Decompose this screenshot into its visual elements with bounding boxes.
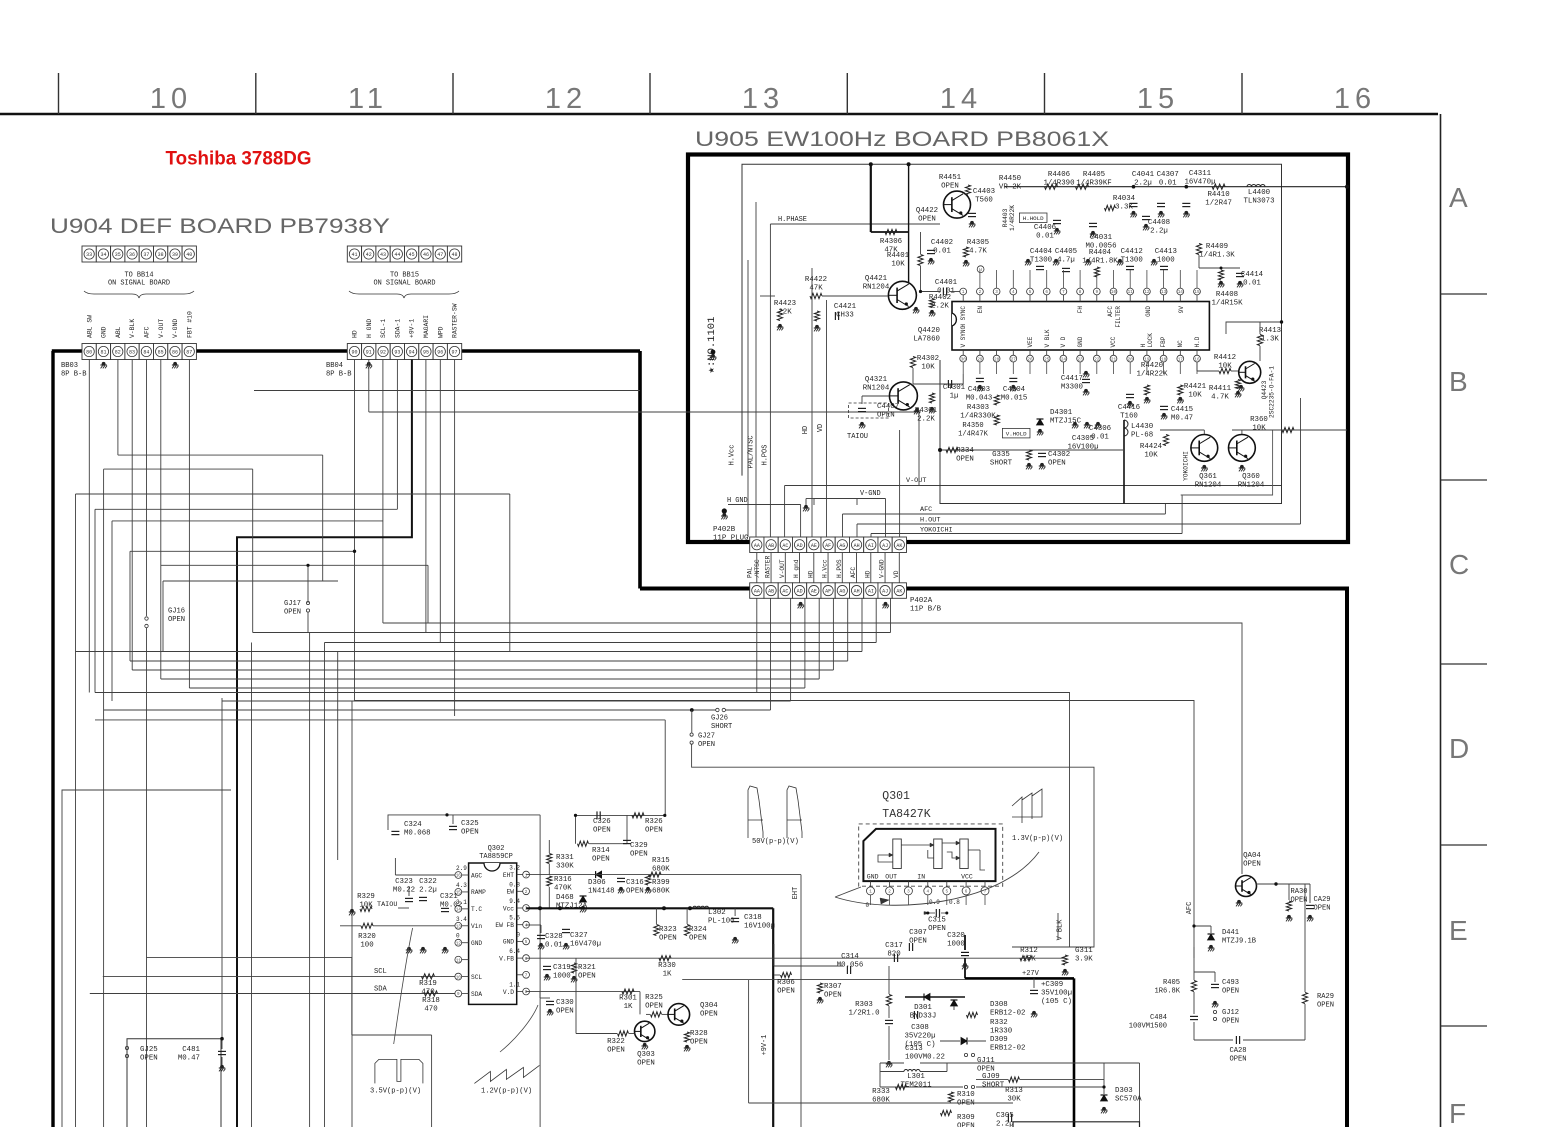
long vertical wire x309.6: [309, 633, 311, 1127]
svg-text:C4401: C4401: [935, 279, 958, 287]
svg-text:14: 14: [1178, 290, 1184, 295]
svg-text:10K: 10K: [1252, 425, 1266, 433]
resistor R4410 1/2R47: [1212, 184, 1225, 189]
wire P402B to P402A pin AA: [756, 553, 758, 583]
svg-text:4.7K: 4.7K: [969, 248, 987, 256]
svg-text:1/4R22K: 1/4R22K: [1009, 205, 1016, 231]
svg-text:91: 91: [366, 350, 372, 356]
svg-text:C4404: C4404: [1030, 248, 1053, 256]
connector P402B AA-AK: [750, 537, 764, 553]
wire to Q303: [576, 1033, 617, 1035]
grounds under P402A: [799, 602, 803, 606]
svg-text:C4041: C4041: [1132, 171, 1155, 179]
svg-text:16V470µ: 16V470µ: [1184, 179, 1215, 187]
svg-text:34: 34: [100, 252, 106, 258]
wires bottom mesh: [748, 980, 750, 1103]
svg-text:AA: AA: [754, 589, 760, 595]
svg-text:9: 9: [457, 992, 460, 997]
svg-text:83: 83: [129, 350, 135, 356]
SCL wire: [103, 975, 455, 977]
svg-text:V-OUT: V-OUT: [158, 319, 165, 338]
svg-text:G311: G311: [1075, 947, 1093, 955]
svg-text:+9V-1: +9V-1: [409, 319, 416, 338]
svg-text:R4408: R4408: [1216, 291, 1238, 299]
svg-text:YOKOICHI: YOKOICHI: [1183, 451, 1190, 481]
svg-text:MTZJ9.1B: MTZJ9.1B: [1222, 937, 1256, 945]
svg-text:OPEN: OPEN: [556, 1008, 574, 1016]
svg-text:M0.068: M0.068: [404, 830, 431, 838]
wire y720 to Q302 top: [95, 719, 665, 721]
left area stair wires: [118, 454, 323, 456]
svg-text:SDA-1: SDA-1: [394, 319, 401, 338]
wire P402B to P402A pin AB: [770, 553, 772, 583]
ground at BB04 pin 91: [367, 362, 371, 366]
svg-text:R4424: R4424: [1140, 443, 1163, 451]
svg-text:OPEN: OPEN: [630, 851, 648, 859]
svg-text:28: 28: [994, 357, 1000, 362]
IC Q302 TA8859CP body: [469, 863, 517, 1004]
pin circle H: [977, 266, 984, 273]
svg-text:6: 6: [965, 890, 968, 895]
svg-text:97: 97: [452, 350, 458, 356]
svg-text:VEE: VEE: [1027, 336, 1034, 347]
svg-text:81: 81: [100, 350, 106, 356]
svg-text:PAL: PAL: [747, 567, 754, 578]
svg-text:11: 11: [456, 958, 462, 963]
svg-text:AI: AI: [868, 543, 874, 549]
svg-text:T160: T160: [1120, 413, 1138, 421]
svg-text:FH: FH: [1077, 306, 1084, 314]
bus wire to P402A pin AG: [132, 669, 833, 671]
svg-text:AB: AB: [768, 543, 774, 549]
svg-text:V-BLK: V-BLK: [129, 319, 136, 338]
svg-text:9.4: 9.4: [509, 898, 520, 905]
wire QA04 to RA30: [1256, 883, 1310, 885]
svg-text:40: 40: [186, 252, 192, 258]
svg-text:680K: 680K: [652, 866, 670, 874]
svg-text:H.D: H.D: [1194, 336, 1201, 347]
svg-text:L4400: L4400: [1248, 189, 1270, 197]
svg-text:ERB12-02: ERB12-02: [990, 1045, 1025, 1053]
svg-text:8P B-B: 8P B-B: [61, 370, 87, 378]
wire from BB03 pin 87: [188, 360, 190, 689]
wire from BB04 pin 92: [382, 360, 384, 624]
svg-text:2.2K: 2.2K: [931, 303, 949, 311]
svg-text:4.7K: 4.7K: [1211, 394, 1229, 402]
svg-text:EW: EW: [507, 889, 515, 896]
svg-text:C4408: C4408: [1148, 219, 1170, 227]
svg-text:C4405: C4405: [1055, 248, 1077, 256]
svg-text:1.3V(p-p)(V): 1.3V(p-p)(V): [1012, 835, 1063, 843]
svg-text:1µ: 1µ: [950, 393, 959, 401]
svg-text:R4450: R4450: [999, 175, 1021, 183]
svg-text:R4306: R4306: [880, 238, 902, 246]
svg-text:13: 13: [1161, 290, 1167, 295]
wire GJ26 line to P402A AB: [692, 709, 716, 711]
svg-text:R316: R316: [554, 876, 572, 884]
svg-text:AF: AF: [825, 589, 831, 595]
svg-text:11: 11: [1128, 290, 1134, 295]
svg-text:HD: HD: [352, 330, 359, 338]
svg-text:R4303: R4303: [967, 404, 989, 412]
svg-text:47: 47: [437, 252, 443, 258]
svg-text:23: 23: [1078, 357, 1084, 362]
svg-text:R322: R322: [607, 1038, 625, 1046]
svg-text:8: 8: [525, 990, 528, 995]
svg-text:RASTER-SW: RASTER-SW: [452, 303, 459, 338]
svg-text:P402B: P402B: [713, 526, 736, 534]
svg-text:1.3K: 1.3K: [1261, 336, 1279, 344]
svg-text:Q4421: Q4421: [865, 275, 888, 283]
resistor R4409 1/4R1.3K: [1196, 244, 1201, 255]
dark feed wires from top: [870, 164, 872, 232]
IC U4420 LA7860 body: [952, 302, 1209, 351]
svg-text:GND: GND: [1145, 306, 1152, 317]
dark +9V-1 wire from BB04 pin 94: [237, 360, 412, 1127]
brace BB14: [84, 291, 194, 298]
svg-text:Q304: Q304: [700, 1002, 718, 1010]
svg-text:OPEN: OPEN: [140, 1055, 158, 1063]
svg-text:R4410: R4410: [1208, 191, 1230, 199]
svg-text:R399: R399: [652, 879, 670, 887]
svg-text:OPEN: OPEN: [1048, 460, 1066, 468]
svg-text:17: 17: [1178, 357, 1184, 362]
svg-text:T560: T560: [975, 197, 993, 205]
svg-text:Vin: Vin: [471, 923, 482, 930]
svg-text:9: 9: [1096, 290, 1099, 295]
transistor QA04 OPEN: [1236, 876, 1257, 897]
svg-text:0.01: 0.01: [1036, 233, 1054, 241]
svg-text:35V100µ: 35V100µ: [1041, 990, 1072, 998]
svg-text:C4406: C4406: [1034, 224, 1056, 232]
svg-text:C324: C324: [404, 821, 422, 829]
svg-text:85: 85: [158, 350, 164, 356]
svg-text:OPEN: OPEN: [168, 616, 185, 624]
svg-text:V-GND: V-GND: [172, 319, 179, 338]
svg-text:6: 6: [525, 957, 528, 962]
svg-text:C318: C318: [744, 914, 762, 922]
svg-text:FILTER: FILTER: [1115, 306, 1122, 328]
svg-text:R314: R314: [592, 847, 610, 855]
svg-text:C484: C484: [1150, 1014, 1167, 1022]
svg-text:Toshiba 3788DG: Toshiba 3788DG: [166, 148, 312, 170]
svg-text:TAIOU: TAIOU: [377, 901, 397, 909]
svg-text:10K: 10K: [1188, 392, 1202, 400]
svg-text:GND: GND: [867, 874, 879, 881]
U905 wires misc: [920, 231, 922, 233]
svg-text:4: 4: [927, 890, 930, 895]
svg-text:0.8: 0.8: [509, 881, 520, 888]
wire from BB04 pin 96: [439, 360, 441, 643]
wire pair lower: [147, 956, 352, 958]
svg-text:ABL: ABL: [115, 326, 122, 338]
svg-text:15: 15: [1194, 290, 1200, 295]
svg-text:D441: D441: [1222, 929, 1239, 937]
svg-text:H.Vcc: H.Vcc: [729, 445, 737, 466]
svg-text:R331: R331: [556, 854, 574, 862]
svg-text:1K: 1K: [663, 971, 672, 979]
svg-text:2: 2: [979, 290, 982, 295]
svg-text:C329: C329: [630, 842, 648, 850]
thick right border of lower board: [1345, 589, 1349, 1127]
svg-text:OPEN: OPEN: [909, 938, 927, 946]
svg-text:AC: AC: [782, 543, 788, 549]
IC top pin row 1-15: [960, 288, 967, 295]
svg-text:R4412: R4412: [1214, 354, 1236, 362]
svg-text:1N4148: 1N4148: [588, 888, 615, 896]
svg-text:12: 12: [1144, 290, 1150, 295]
IC bottom pin row 30-16: [960, 355, 967, 362]
svg-text:Q4422: Q4422: [916, 207, 938, 215]
svg-text:R4302: R4302: [917, 355, 939, 363]
svg-text:1: 1: [525, 873, 528, 878]
svg-text:AG: AG: [839, 589, 845, 595]
capacitor C4407 OPEN dashed: [849, 403, 889, 418]
wire P402B to P402A pin AK: [898, 553, 900, 583]
svg-text:+9V-1: +9V-1: [761, 1035, 769, 1056]
transistor Q303 OPEN: [635, 1021, 655, 1041]
svg-text:Q4321: Q4321: [865, 376, 888, 384]
svg-text:10: 10: [456, 975, 462, 980]
svg-text:OPEN: OPEN: [461, 829, 479, 837]
svg-text:LOCK: LOCK: [1147, 333, 1154, 348]
svg-text:RN1204: RN1204: [1195, 482, 1222, 490]
svg-text:1000: 1000: [947, 941, 965, 949]
svg-text:H SYNC: H SYNC: [960, 306, 967, 328]
svg-text:100VM0.22: 100VM0.22: [905, 1054, 945, 1062]
svg-text:GJ25: GJ25: [140, 1046, 158, 1054]
svg-text:OPEN: OPEN: [1222, 987, 1239, 995]
svg-text:12: 12: [545, 83, 587, 115]
svg-text:R301: R301: [619, 995, 637, 1003]
svg-text:OPEN: OPEN: [877, 412, 895, 420]
svg-text:37: 37: [143, 252, 149, 258]
svg-text:AD: AD: [797, 589, 803, 595]
svg-text:OPEN: OPEN: [626, 888, 644, 896]
svg-text:D306: D306: [588, 879, 606, 887]
svg-text:RA29: RA29: [1317, 993, 1334, 1001]
svg-text:C4302: C4302: [1048, 451, 1070, 459]
svg-text:R4301: R4301: [915, 407, 938, 415]
wire top of Q302 area: [388, 815, 540, 830]
svg-text:2.2µ: 2.2µ: [1134, 180, 1152, 188]
svg-text:V.FB: V.FB: [499, 955, 514, 962]
svg-text:330K: 330K: [556, 863, 574, 871]
svg-text:1.1: 1.1: [509, 982, 520, 989]
svg-text:F: F: [1449, 1098, 1466, 1127]
svg-text:R4401: R4401: [887, 252, 910, 260]
svg-text:16V100µ: 16V100µ: [744, 923, 775, 931]
svg-text:15: 15: [1137, 83, 1179, 115]
svg-text:R307: R307: [824, 983, 842, 991]
resistor R330 1K: [659, 956, 671, 961]
svg-text:10K: 10K: [891, 261, 905, 269]
svg-text:C325: C325: [461, 820, 479, 828]
svg-text:1/4R22K: 1/4R22K: [1136, 371, 1168, 379]
svg-text:CA28: CA28: [1229, 1047, 1246, 1055]
resistor R4401 10K: [918, 255, 923, 266]
bus wire to P402A pin AE: [189, 687, 805, 689]
svg-text:R4404: R4404: [1089, 249, 1112, 257]
svg-text:0: 0: [456, 933, 460, 940]
svg-text:M0.22: M0.22: [393, 887, 415, 895]
transistor Q361 RN1204: [1191, 435, 1218, 462]
svg-text:10: 10: [150, 83, 192, 115]
svg-text:Q361: Q361: [1199, 473, 1217, 481]
bus wire to P402A pin AK: [253, 632, 891, 634]
svg-text:R4451: R4451: [939, 174, 962, 182]
connector P402A AA-AK: [750, 583, 764, 599]
svg-text:H.PHASE: H.PHASE: [778, 216, 807, 224]
svg-text:D308: D308: [990, 1001, 1008, 1009]
svg-text:ERB12-02: ERB12-02: [990, 1010, 1025, 1018]
svg-text:4: 4: [1012, 290, 1015, 295]
svg-text:R309: R309: [957, 1114, 975, 1122]
svg-text:R4034: R4034: [1113, 195, 1136, 203]
svg-text:OPEN: OPEN: [956, 456, 974, 464]
svg-text:AH: AH: [854, 543, 860, 549]
svg-text:AD: AD: [797, 543, 803, 549]
wire from BB04 pin 95: [425, 360, 427, 633]
SDA wire: [90, 993, 455, 995]
svg-text:16: 16: [1194, 357, 1200, 362]
svg-text:C4421: C4421: [834, 303, 857, 311]
svg-text:BB04: BB04: [326, 362, 343, 370]
svg-text:45: 45: [409, 252, 415, 258]
svg-text:M3300: M3300: [1061, 384, 1083, 392]
svg-text:R4405: R4405: [1083, 171, 1105, 179]
svg-text:NC: NC: [1177, 340, 1184, 348]
svg-text:41: 41: [351, 252, 357, 258]
svg-text:2SC2235-O-FA-1: 2SC2235-O-FA-1: [1269, 366, 1276, 418]
svg-text:R4350: R4350: [962, 422, 983, 430]
svg-text:R306: R306: [777, 979, 795, 987]
svg-text:R4403: R4403: [1002, 208, 1009, 227]
svg-text:BYD33J: BYD33J: [910, 1013, 937, 1021]
svg-text:C4311: C4311: [1189, 170, 1212, 178]
svg-text:EHT: EHT: [792, 887, 800, 899]
svg-text:H GND: H GND: [727, 497, 748, 505]
svg-text:OPEN: OPEN: [645, 827, 663, 835]
svg-text:1.2V(p-p)(V): 1.2V(p-p)(V): [481, 1088, 532, 1096]
thick wire U904 top edge: [52, 349, 640, 353]
resistor R4405 1/4R39KF: [1076, 184, 1089, 189]
svg-text:EN: EN: [977, 306, 984, 314]
svg-text:1: 1: [962, 290, 965, 295]
svg-text:16V470µ: 16V470µ: [570, 941, 601, 949]
svg-text:R4423: R4423: [774, 300, 796, 308]
svg-text:R313: R313: [1005, 1087, 1023, 1095]
svg-text:1/4R39KF: 1/4R39KF: [1076, 180, 1111, 188]
connector BB04: [347, 344, 361, 360]
svg-text:AFC: AFC: [1186, 902, 1194, 914]
bus wire to P402A pin AF: [161, 678, 819, 680]
U905 inner thin box: [742, 164, 1282, 503]
svg-text:VCC: VCC: [1110, 336, 1117, 347]
svg-text:1R330: 1R330: [990, 1028, 1012, 1036]
wire from BB04 pin 97: [454, 360, 456, 717]
transistor Q4321 RN1204: [889, 382, 917, 410]
svg-text:OPEN: OPEN: [1317, 1001, 1334, 1009]
wire P402B to P402A pin AJ: [884, 553, 886, 583]
svg-text:U905 EW100Hz BOARD PB8061X: U905 EW100Hz BOARD PB8061X: [695, 128, 1109, 151]
svg-text:GJ16: GJ16: [168, 608, 185, 616]
svg-text:10: 10: [1111, 290, 1117, 295]
svg-text:8: 8: [1079, 290, 1082, 295]
svg-text:OPEN: OPEN: [1229, 1055, 1246, 1063]
svg-text:5: 5: [946, 890, 949, 895]
svg-text:H.OUT: H.OUT: [920, 517, 940, 525]
svg-text:96: 96: [437, 350, 443, 356]
right border: [1440, 114, 1442, 1127]
svg-text:SDA: SDA: [374, 986, 388, 994]
svg-text:ABL SW: ABL SW: [86, 315, 93, 338]
svg-text:GJ17: GJ17: [284, 600, 301, 608]
bus wire to P402A pin AD: [222, 700, 791, 702]
connector strip pins 33-40: [82, 246, 96, 262]
wire P402B to P402A pin AI: [870, 553, 872, 583]
svg-text:R4413: R4413: [1259, 327, 1281, 335]
svg-text:2.9: 2.9: [456, 865, 467, 872]
svg-text:SC570A: SC570A: [1115, 1096, 1142, 1104]
svg-text:6: 6: [1045, 290, 1048, 295]
svg-text:M0.47: M0.47: [178, 1055, 200, 1063]
svg-text:38: 38: [158, 252, 164, 258]
svg-text:3.5V(p-p)(V): 3.5V(p-p)(V): [370, 1088, 421, 1096]
svg-text:4.7µ: 4.7µ: [1057, 257, 1075, 265]
svg-text:LA7860: LA7860: [913, 336, 940, 344]
Q301 internal blocks: [893, 839, 902, 869]
svg-text:H: H: [1140, 344, 1147, 348]
svg-text:5: 5: [525, 940, 528, 945]
svg-text:7: 7: [525, 974, 528, 979]
svg-text:0.01: 0.01: [1159, 180, 1177, 188]
ruler line: [0, 113, 1438, 116]
svg-text:OPEN: OPEN: [957, 1123, 975, 1127]
svg-text:100VM1500: 100VM1500: [1129, 1022, 1167, 1030]
wire B4 to GJ16: [146, 360, 148, 617]
svg-text:13: 13: [742, 83, 784, 115]
svg-text:R4422: R4422: [805, 276, 827, 284]
svg-text:L302: L302: [708, 909, 726, 917]
wire from BB03 pin 85: [160, 360, 162, 680]
svg-text:L4430: L4430: [1131, 423, 1153, 431]
svg-text:SCL: SCL: [374, 968, 387, 976]
svg-text:C4402: C4402: [931, 239, 953, 247]
svg-text:1/4R15K: 1/4R15K: [1211, 300, 1243, 308]
bottom partial box: [1013, 1122, 1140, 1127]
svg-text:0.01: 0.01: [933, 248, 951, 256]
svg-text:R4402: R4402: [929, 294, 951, 302]
curve arrow to pin2: [880, 898, 889, 904]
svg-text:TLN3073: TLN3073: [1243, 198, 1274, 206]
svg-text:D: D: [1449, 733, 1469, 764]
svg-text:1/2R1.0: 1/2R1.0: [848, 1010, 879, 1018]
svg-text:R321: R321: [578, 964, 596, 972]
bus wire to AFC column: [355, 701, 1195, 948]
bus wire AFC long to QA04: [383, 623, 1242, 874]
wire from BB04 pin 93: [396, 360, 398, 510]
IC Q301 dashed outline: [859, 824, 1003, 886]
svg-text:26: 26: [1027, 357, 1033, 362]
svg-text:/NTSC: /NTSC: [754, 559, 761, 578]
svg-text:R310: R310: [957, 1091, 975, 1099]
waveform 1.3V: [1012, 789, 1042, 823]
wire below GJ16: [146, 628, 148, 1127]
svg-text:D468: D468: [556, 894, 574, 902]
svg-text:6.4: 6.4: [509, 948, 520, 955]
svg-text:TO BB14: TO BB14: [125, 272, 154, 280]
